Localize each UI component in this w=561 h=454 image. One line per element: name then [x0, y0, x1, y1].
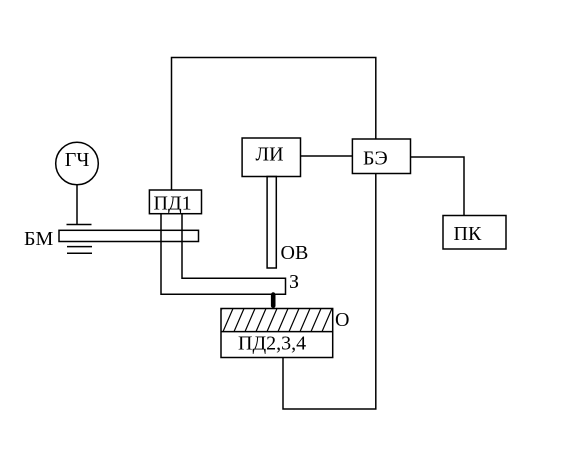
svg-text:ПК: ПК — [454, 223, 482, 245]
svg-text:О: О — [335, 309, 349, 331]
svg-text:БМ: БМ — [24, 228, 53, 250]
svg-text:ГЧ: ГЧ — [65, 149, 90, 171]
svg-text:БЭ: БЭ — [363, 148, 388, 170]
svg-text:ПД2,3,4: ПД2,3,4 — [238, 333, 306, 355]
svg-text:З: З — [289, 271, 299, 293]
svg-text:ОВ: ОВ — [281, 242, 309, 264]
svg-text:ЛИ: ЛИ — [256, 144, 284, 166]
svg-text:ПД1: ПД1 — [154, 193, 192, 215]
